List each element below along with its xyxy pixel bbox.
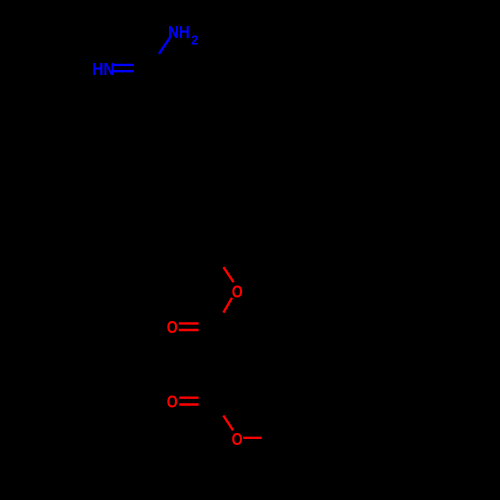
svg-text:O: O [167,317,178,337]
svg-text:O: O [232,281,243,301]
svg-text:O: O [232,429,243,449]
svg-text:HN: HN [92,59,115,79]
svg-text:NH: NH [168,22,190,42]
svg-text:2: 2 [191,34,198,48]
svg-text:O: O [167,392,178,412]
